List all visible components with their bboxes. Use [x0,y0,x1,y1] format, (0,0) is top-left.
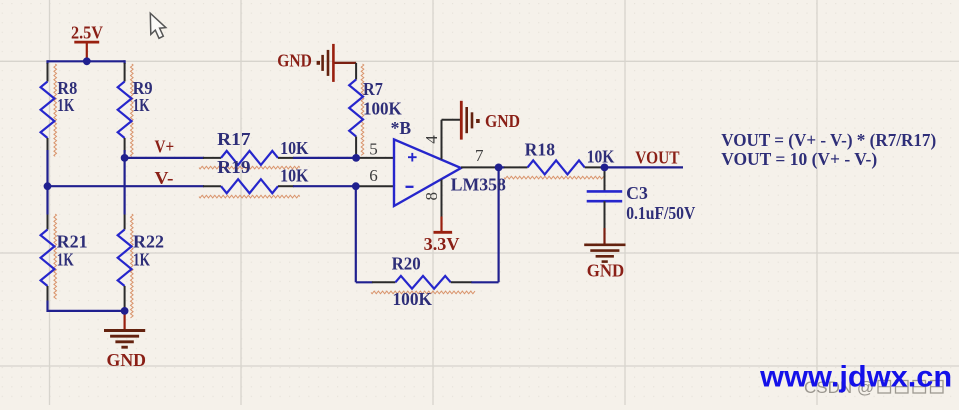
svg-text:3.3V: 3.3V [424,234,460,254]
svg-text:10K: 10K [587,147,615,167]
svg-text:R19: R19 [217,157,251,177]
svg-text:GND: GND [107,350,147,370]
svg-text:R7: R7 [363,79,383,99]
svg-text:*B: *B [391,118,412,138]
svg-text:4: 4 [422,135,441,144]
svg-text:1K: 1K [133,95,150,115]
svg-text:C3: C3 [626,183,648,203]
svg-text:5: 5 [369,140,378,159]
svg-text:R20: R20 [392,254,421,274]
svg-text:V+: V+ [155,136,175,156]
svg-text:100K: 100K [363,98,402,118]
svg-text:10K: 10K [280,165,309,185]
svg-text:7: 7 [475,146,484,165]
svg-text:1K: 1K [133,249,150,269]
svg-text:VOUT = 10 (V+ - V-): VOUT = 10 (V+ - V-) [721,149,877,169]
svg-text:GND: GND [277,50,312,70]
svg-text:1K: 1K [57,249,74,269]
svg-text:GND: GND [587,261,625,281]
svg-text:V-: V- [155,168,174,188]
svg-text:2.5V: 2.5V [71,23,103,43]
svg-text:1K: 1K [57,95,74,115]
svg-text:LM358: LM358 [451,174,507,194]
svg-text:100K: 100K [393,289,433,309]
svg-text:GND: GND [485,111,520,131]
svg-text:6: 6 [369,166,378,185]
svg-text:www.jdwx.cn: www.jdwx.cn [759,360,952,393]
svg-text:0.1uF/50V: 0.1uF/50V [626,203,695,223]
svg-text:R18: R18 [525,139,556,159]
svg-text:10K: 10K [280,138,309,158]
svg-text:VOUT: VOUT [635,147,679,167]
svg-text:8: 8 [422,192,441,201]
svg-text:VOUT = (V+ - V-) * (R7/R17): VOUT = (V+ - V-) * (R7/R17) [721,130,936,150]
svg-text:R17: R17 [217,129,251,149]
